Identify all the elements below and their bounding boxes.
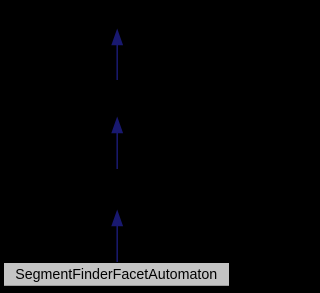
arrowhead (top edge) [112,30,122,45]
wire: inheritance edge stem (middle) [116,132,118,170]
arrowhead (middle edge) [112,118,122,133]
wire: inheritance edge stem (top) [116,44,118,81]
svg-text:SegmentFinderFacetAutomaton: SegmentFinderFacetAutomaton [15,266,217,283]
arrowhead (bottom edge) [112,211,122,226]
wire: inheritance edge stem (bottom) [116,224,118,262]
node box: SegmentFinderFacetAutomaton [4,263,230,287]
